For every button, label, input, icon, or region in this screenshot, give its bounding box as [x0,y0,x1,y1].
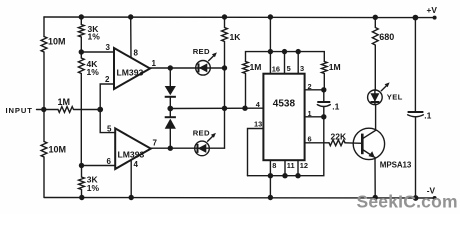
svg-text:3: 3 [106,43,111,52]
svg-text:1%: 1% [87,183,100,193]
wire pin1 net down to bottom bus [248,117,324,176]
svg-text:.1: .1 [332,102,339,112]
resistor 1M left of 4538 [243,62,249,109]
wire top +V rail [44,16,435,19]
svg-text:INPUT: INPUT [6,106,33,115]
svg-text:LM393: LM393 [118,149,145,159]
wire bottom bus to -V rail [269,176,271,198]
svg-text:6: 6 [107,157,112,166]
wire bottom bus pins 8 11 12 [269,160,271,176]
terminal +V [433,16,437,20]
svg-text:.1: .1 [424,111,431,121]
node input junction [41,107,46,112]
svg-text:1: 1 [152,59,157,68]
node pin1 cap [321,114,326,119]
svg-text:8: 8 [134,49,139,58]
svg-text:1%: 1% [88,31,101,41]
node 4538 supply rail [268,14,273,19]
wire right cap vertical from +V rail [414,18,416,112]
wire 4538 supply vertical from rail [269,17,271,52]
svg-text:4538: 4538 [273,99,296,110]
node 1K rail [222,14,227,19]
node B (pin6/3K lower) [79,163,84,168]
node diode midpoint [167,106,173,112]
node output2 diode [168,146,173,151]
LED RED1 arrow [209,55,215,61]
node right cap rail bottom [413,195,419,201]
LED YEL arrow [381,85,387,91]
svg-text:1M: 1M [58,97,71,107]
svg-text:12: 12 [300,161,308,170]
wire pin6 [82,165,116,167]
svg-text:3: 3 [300,64,304,73]
LED RED2 arrow [208,136,214,142]
svg-text:5: 5 [287,64,291,73]
node 1M-left bottom [242,106,247,111]
svg-text:2: 2 [105,75,110,84]
resistor 3K upper [78,17,84,52]
svg-text:+V: +V [427,5,438,15]
node pin8 rail [128,14,133,19]
transistor emitter [362,149,374,157]
resistor 10M lower [41,142,47,198]
node 3K lower to rail [79,195,84,200]
LED RED2 [195,141,210,156]
wire pin16 stub [269,52,271,74]
wire pin1 stub [305,116,324,118]
svg-text:MPSA13: MPSA13 [380,161,412,170]
wire 4538 top bus [246,52,325,62]
svg-text:1M: 1M [250,62,262,72]
wire pin2 stub [305,89,324,91]
LED RED1 [196,61,211,76]
op-amp U1a LM393 [114,48,150,89]
node LED1 1K [222,65,227,70]
svg-text:1M: 1M [329,62,341,72]
wire output2 [151,147,195,149]
capacitor C2 .1 [408,111,424,113]
node pin2 cap [321,87,326,92]
transistor base bar [361,134,364,155]
transistor Q1 MPSA13 [353,128,384,159]
op-amp U1b LM393 [115,128,151,169]
resistor 4K [78,52,84,110]
wire left vertical (input net bottom) [43,110,45,142]
node bus pin5 [282,49,287,54]
wire LED2 to 1K net corner [209,147,224,149]
resistor 3K lower [79,166,85,198]
transistor collector [362,105,375,139]
node bus rail [268,195,273,200]
svg-text:680: 680 [379,32,394,42]
node A (3K/4K/pin3) [79,49,84,54]
wire left vertical (input net top) [43,17,45,37]
capacitor C1 .1 [323,90,325,102]
svg-text:11: 11 [287,161,295,170]
IC U2 4538 box [263,74,304,161]
wire pin3 [81,51,114,53]
resistor 22K [329,140,345,146]
node bus pin12 [295,173,300,178]
node pin2/pin5 junction [97,107,103,113]
svg-text:16: 16 [272,65,280,74]
wire LED1 to 1K net [210,67,224,69]
svg-text:6: 6 [308,134,312,143]
wire pin5 stub [284,52,286,74]
node 3K rail [79,14,84,19]
node bus pin16 [268,49,273,54]
svg-text:4: 4 [134,160,139,169]
wire pin4 to -V rail [130,160,132,198]
node pin4 rail [129,195,134,200]
svg-text:1%: 1% [87,67,100,77]
wire 1K net vertical [224,68,226,148]
diode D1 (anode top) [169,68,171,86]
resistor 1M input [58,107,73,113]
resistor 1M right of 4538 [321,62,327,90]
terminal -V [433,196,437,200]
wire 1M to pin2/pin5 node [74,109,100,111]
node output1 diode [168,65,173,70]
svg-text:22K: 22K [331,132,347,142]
wire 4K down to node B (crosses input line) [80,110,82,166]
node bus pin8 [268,173,273,178]
svg-text:RED: RED [193,47,210,56]
wire pin2 [100,84,114,110]
wire pin6 stub to 22K [305,142,329,144]
resistor 680 [372,17,378,90]
wire pin8 from +V rail [130,17,132,58]
wire pin3 stub [297,52,299,74]
wire 22K to base [345,142,362,145]
svg-text:RED: RED [193,128,210,137]
node 1K / pin4 wire [222,106,227,111]
svg-text:1K: 1K [230,32,242,42]
node bus pin11 [282,173,287,178]
svg-text:7: 7 [153,139,158,148]
diode D2 (cathode top) [169,109,171,118]
wire bottom -V rail [45,197,435,200]
svg-text:LM393: LM393 [117,67,144,77]
svg-text:8: 8 [272,161,276,170]
wire pin13 [248,129,264,176]
wire pin5 [100,110,115,133]
node bus pin3 [296,49,301,54]
svg-text:YEL: YEL [387,92,403,101]
node 680 rail [373,15,378,20]
node right cap rail [413,15,419,21]
wire emitter to -V rail [374,158,376,198]
resistor 10M upper [41,37,47,110]
resistor 1K [222,17,228,68]
svg-text:5: 5 [107,125,112,134]
svg-text:10M: 10M [49,145,67,155]
wire output1 [150,67,196,69]
LED YEL [368,90,383,105]
wire diode mid to 4538 pin4 [170,107,263,109]
node emitter rail [373,195,378,200]
wire input stub [37,109,59,111]
svg-text:SeekIC.com: SeekIC.com [357,191,458,211]
svg-text:13: 13 [254,120,262,129]
svg-text:10M: 10M [48,37,66,47]
